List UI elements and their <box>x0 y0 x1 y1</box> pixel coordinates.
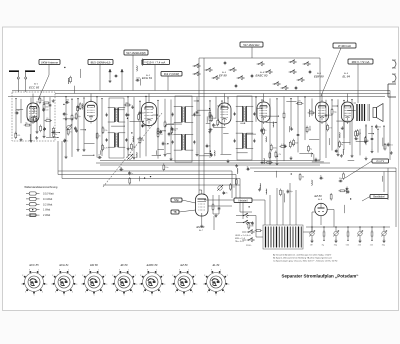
svg-text:4: 4 <box>132 292 133 294</box>
svg-text:2n: 2n <box>66 140 68 142</box>
svg-text:4: 4 <box>160 292 161 294</box>
svg-text:6: 6 <box>25 292 26 294</box>
svg-text:8: 8 <box>204 275 205 277</box>
svg-text:0,1: 0,1 <box>308 129 311 131</box>
svg-text:4: 4 <box>224 292 225 294</box>
svg-text:7: 7 <box>111 284 112 286</box>
svg-text:7: 7 <box>51 284 52 286</box>
svg-text:300: 300 <box>378 126 381 128</box>
svg-text:100k: 100k <box>136 77 140 79</box>
svg-text:Separater Stromlaufplan „Potsd: Separater Stromlaufplan „Potsdam“ <box>281 274 358 279</box>
svg-text:9: 9 <box>89 269 90 271</box>
svg-text:300: 300 <box>66 100 69 102</box>
svg-text:5: 5 <box>64 295 65 297</box>
svg-text:15k: 15k <box>318 159 321 161</box>
svg-text:10n: 10n <box>390 144 393 146</box>
svg-text:30p: 30p <box>339 178 342 180</box>
svg-text:0,5M: 0,5M <box>211 118 216 120</box>
svg-text:6: 6 <box>55 292 56 294</box>
svg-text:5: 5 <box>94 295 95 297</box>
svg-text:3: 3 <box>46 284 47 286</box>
svg-text:TB: TB <box>173 211 177 214</box>
svg-text:EZ 80: EZ 80 <box>315 194 323 198</box>
svg-text:3: 3 <box>136 284 137 286</box>
svg-text:1k: 1k <box>41 100 43 102</box>
svg-text:8: 8 <box>52 275 53 277</box>
svg-text:47k: 47k <box>17 135 20 137</box>
svg-text:7: 7 <box>21 284 22 286</box>
svg-text:15k: 15k <box>104 130 107 132</box>
svg-text:2: 2 <box>135 275 136 277</box>
svg-text:4: 4 <box>102 292 103 294</box>
svg-text:0,5M: 0,5M <box>15 110 20 112</box>
svg-text:2 Watt: 2 Watt <box>43 214 50 217</box>
svg-text:2n: 2n <box>99 136 101 138</box>
svg-text:EABC 80: EABC 80 <box>147 263 158 267</box>
svg-text:70: 70 <box>46 118 48 120</box>
svg-text:ECC 85: ECC 85 <box>29 86 40 90</box>
svg-text:NSp: NSp <box>174 199 179 202</box>
svg-text:EL 84: EL 84 <box>213 263 220 267</box>
svg-text:220: 220 <box>358 245 361 247</box>
svg-text:1: 1 <box>98 269 99 271</box>
svg-text:125: 125 <box>370 245 373 247</box>
svg-text:2: 2 <box>195 275 196 277</box>
svg-text:30p: 30p <box>171 134 174 136</box>
svg-text:220V~: 220V~ <box>246 245 253 247</box>
svg-text:30p: 30p <box>334 245 337 247</box>
svg-text:70: 70 <box>82 106 84 108</box>
svg-text:EF 89: EF 89 <box>121 263 128 267</box>
svg-text:10n: 10n <box>165 167 168 169</box>
svg-text:3: 3 <box>76 284 77 286</box>
svg-text:2n: 2n <box>131 173 133 175</box>
svg-text:1: 1 <box>128 269 129 271</box>
svg-text:2 x 2 V: 2 x 2 V <box>376 160 384 163</box>
svg-text:8: 8 <box>22 275 23 277</box>
svg-text:8: 8 <box>140 275 141 277</box>
svg-text:1k: 1k <box>246 166 248 168</box>
svg-text:1k: 1k <box>367 140 369 142</box>
svg-text:1k: 1k <box>98 155 100 157</box>
svg-text:EZ 80: EZ 80 <box>181 263 188 267</box>
svg-text:312 V (UKW): 312 V (UKW) <box>164 72 179 76</box>
svg-text:8: 8 <box>82 275 83 277</box>
svg-text:9: 9 <box>119 269 120 271</box>
svg-text:5: 5 <box>124 295 125 297</box>
svg-text:2: 2 <box>75 275 76 277</box>
svg-text:517-1622 kHz: 517-1622 kHz <box>243 43 260 47</box>
svg-text:2: 2 <box>105 275 106 277</box>
svg-text:30p: 30p <box>78 116 81 118</box>
svg-text:25: 25 <box>225 193 227 195</box>
svg-text:300: 300 <box>292 144 295 146</box>
svg-text:7: 7 <box>139 284 140 286</box>
svg-text:300: 300 <box>125 102 128 104</box>
svg-text:220: 220 <box>298 101 301 103</box>
svg-text:6: 6 <box>115 292 116 294</box>
svg-text:220: 220 <box>45 109 48 111</box>
svg-text:4: 4 <box>72 292 73 294</box>
svg-text:0,1: 0,1 <box>281 144 284 146</box>
svg-text:7: 7 <box>171 284 172 286</box>
svg-text:Zf 460 kHz: Zf 460 kHz <box>338 44 352 48</box>
svg-text:1k: 1k <box>320 175 322 177</box>
svg-text:UKW-Antenne: UKW-Antenne <box>41 60 59 64</box>
svg-text:ECH 81: ECH 81 <box>59 263 69 267</box>
svg-text:5: 5 <box>184 295 185 297</box>
svg-text:9: 9 <box>59 269 60 271</box>
svg-text:300: 300 <box>45 107 48 109</box>
svg-text:70: 70 <box>359 133 361 135</box>
svg-text:280 V / 72 mA: 280 V / 72 mA <box>352 60 370 64</box>
svg-text:5n: 5n <box>29 117 31 119</box>
svg-text:5: 5 <box>152 295 153 297</box>
svg-text:Widerstandskennzeichnung: Widerstandskennzeichnung <box>24 185 58 189</box>
svg-text:2: 2 <box>227 275 228 277</box>
svg-text:88,5-100MHz(U): 88,5-100MHz(U) <box>91 60 111 64</box>
svg-text:9: 9 <box>211 269 212 271</box>
svg-text:517-1622kHz(M): 517-1622kHz(M) <box>126 51 145 55</box>
svg-text:4: 4 <box>42 292 43 294</box>
svg-text:219 V / 7,4 mA: 219 V / 7,4 mA <box>147 60 166 64</box>
svg-text:15k: 15k <box>232 187 235 189</box>
svg-text:47k: 47k <box>309 110 312 112</box>
svg-text:Netzteil: Netzteil <box>239 198 248 202</box>
svg-text:3: 3 <box>228 284 229 286</box>
svg-text:1k: 1k <box>165 143 167 145</box>
svg-text:1k: 1k <box>140 117 142 119</box>
svg-text:4: 4 <box>192 292 193 294</box>
svg-text:1/10 Watt: 1/10 Watt <box>43 193 54 196</box>
svg-text:300: 300 <box>295 142 298 144</box>
svg-text:C) Spannungen geg. Chassis, N: C) Spannungen geg. Chassis, Netz 220 V~,… <box>273 260 337 263</box>
svg-text:1k: 1k <box>66 114 68 116</box>
svg-text:15k: 15k <box>173 130 176 132</box>
svg-text:1: 1 <box>156 269 157 271</box>
svg-text:8: 8 <box>172 275 173 277</box>
svg-text:EBF 89: EBF 89 <box>314 75 324 79</box>
svg-text:6: 6 <box>207 292 208 294</box>
svg-text:ECC 85: ECC 85 <box>29 263 39 267</box>
svg-text:5n: 5n <box>55 134 57 136</box>
svg-text:47k: 47k <box>329 127 332 129</box>
svg-text:500: 500 <box>346 245 349 247</box>
svg-text:7: 7 <box>203 284 204 286</box>
svg-text:3: 3 <box>196 284 197 286</box>
svg-text:2: 2 <box>163 275 164 277</box>
svg-text:1 Watt: 1 Watt <box>43 209 50 212</box>
svg-text:30p: 30p <box>382 245 385 247</box>
svg-text:1: 1 <box>188 269 189 271</box>
svg-text:UKW = 2+3,5+6: UKW = 2+3,5+6 <box>235 235 251 237</box>
svg-text:2: 2 <box>45 275 46 277</box>
svg-text:300: 300 <box>250 226 253 228</box>
svg-text:1M: 1M <box>141 140 144 142</box>
svg-text:Bandkabel: Bandkabel <box>373 195 385 198</box>
svg-text:1k: 1k <box>209 146 211 148</box>
svg-text:1k: 1k <box>144 125 146 127</box>
svg-text:3: 3 <box>164 284 165 286</box>
svg-text:EL 84: EL 84 <box>343 75 351 79</box>
svg-text:EM 80: EM 80 <box>90 263 98 267</box>
svg-text:220: 220 <box>144 62 147 64</box>
svg-text:7: 7 <box>81 284 82 286</box>
svg-text:MW = 2+3: MW = 2+3 <box>235 238 246 240</box>
svg-text:9: 9 <box>29 269 30 271</box>
svg-text:4,7k: 4,7k <box>104 147 108 149</box>
svg-text:500: 500 <box>133 146 136 148</box>
svg-text:1M: 1M <box>301 177 304 179</box>
svg-text:5: 5 <box>34 295 35 297</box>
svg-text:1M: 1M <box>310 245 313 247</box>
svg-text:1: 1 <box>38 269 39 271</box>
svg-text:25: 25 <box>70 132 72 134</box>
svg-text:B) Spann.-Messwerte bei Stell: B) Spann.-Messwerte bei Stellung TA ohne… <box>273 257 333 260</box>
svg-text:A) Gesamte Anodenstr. und Bez: A) Gesamte Anodenstr. und Bezugsl. bei a… <box>273 254 332 257</box>
svg-text:220: 220 <box>159 134 162 136</box>
svg-text:100k: 100k <box>273 147 277 149</box>
svg-text:5: 5 <box>216 295 217 297</box>
svg-text:1: 1 <box>220 269 221 271</box>
svg-text:9: 9 <box>147 269 148 271</box>
svg-text:6: 6 <box>175 292 176 294</box>
svg-text:1/4 Watt: 1/4 Watt <box>43 198 53 201</box>
svg-text:10n: 10n <box>141 112 144 114</box>
svg-text:6: 6 <box>143 292 144 294</box>
svg-text:1/2 Watt: 1/2 Watt <box>43 203 53 206</box>
svg-text:2n: 2n <box>79 108 81 110</box>
svg-text:1: 1 <box>68 269 69 271</box>
svg-text:8: 8 <box>112 275 113 277</box>
svg-text:3: 3 <box>106 284 107 286</box>
svg-text:9: 9 <box>179 269 180 271</box>
svg-text:6: 6 <box>85 292 86 294</box>
